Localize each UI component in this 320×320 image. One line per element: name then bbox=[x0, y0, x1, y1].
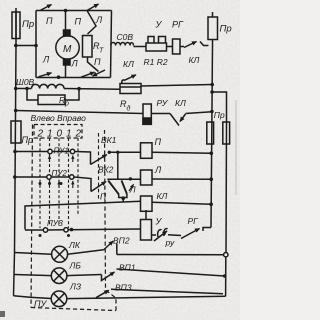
lamp LZ bbox=[14, 296, 52, 299]
wire Rd row bbox=[16, 111, 143, 114]
crease line bbox=[235, 100, 237, 195]
relay L box bbox=[141, 170, 153, 185]
resistor Rp parallel loop bbox=[27, 89, 38, 101]
wire supply vertical bbox=[211, 46, 213, 228]
wire PU3 upper loop bbox=[25, 201, 141, 229]
svg-text:П: П bbox=[46, 16, 53, 26]
svg-text:КЛ: КЛ bbox=[157, 191, 168, 201]
node PU1 left bbox=[13, 150, 17, 154]
contact RU bbox=[152, 234, 157, 236]
switch VP3 bbox=[96, 290, 109, 297]
switch P bottom (Rt to corner) bbox=[88, 57, 99, 72]
fuse Pr2 left bus bbox=[11, 121, 21, 143]
svg-text:М: М bbox=[63, 44, 72, 55]
resistor Rt bbox=[83, 36, 93, 58]
svg-text:ВП2: ВП2 bbox=[113, 236, 130, 246]
svg-text:д: д bbox=[127, 105, 131, 113]
paper texture bbox=[0, 0, 240, 320]
switch blade bottom-right bbox=[81, 72, 95, 77]
wire ShOV row bbox=[16, 88, 32, 90]
node Rd row tap bbox=[210, 110, 214, 114]
node fuse1 to motor-block junction bbox=[14, 44, 18, 48]
svg-text:Л: Л bbox=[42, 55, 50, 65]
svg-text:П: П bbox=[94, 57, 101, 67]
svg-text:R1 R2: R1 R2 bbox=[144, 57, 168, 67]
switch PU2 row bbox=[15, 176, 47, 178]
fuse Pr1 top-left bbox=[12, 12, 20, 39]
svg-text:Л: Л bbox=[154, 165, 162, 175]
svg-text:РГ: РГ bbox=[172, 20, 184, 30]
relay KL2 box bbox=[141, 196, 153, 211]
junction dots positions bbox=[39, 182, 42, 185]
svg-text:0: 0 bbox=[57, 128, 63, 139]
changeover blades P L bbox=[108, 181, 119, 195]
svg-text:ВК2: ВК2 bbox=[98, 165, 114, 175]
switch VP2 bbox=[104, 241, 114, 250]
fuse Pr right of pair bbox=[223, 122, 230, 144]
relay KL box bbox=[120, 84, 141, 94]
svg-text:Пр: Пр bbox=[214, 110, 225, 120]
svg-text:КЛ: КЛ bbox=[123, 59, 134, 69]
enclosure dashed box bbox=[31, 125, 116, 311]
lamp LB bbox=[15, 275, 52, 276]
wire VP2 row to bus bbox=[117, 254, 224, 256]
wire KL row to bus bbox=[152, 202, 211, 204]
svg-text:П: П bbox=[155, 137, 162, 147]
svg-text:Влево Вправо: Влево Вправо bbox=[31, 113, 87, 123]
relay U box bbox=[145, 210, 147, 220]
wire motor-block bottom rail bbox=[36, 77, 111, 79]
resistor Rd bbox=[143, 104, 151, 124]
svg-text:Л: Л bbox=[129, 185, 136, 195]
position stems bbox=[40, 138, 78, 228]
contact arrows PU1 bbox=[49, 156, 51, 163]
svg-text:Л: Л bbox=[95, 15, 103, 25]
positions box dashed bbox=[34, 125, 82, 139]
svg-text:КЛ: КЛ bbox=[189, 55, 200, 65]
switch L bottom-left bbox=[39, 73, 52, 77]
svg-text:ПУ: ПУ bbox=[34, 299, 48, 309]
svg-text:ЛЗ: ЛЗ bbox=[69, 282, 82, 292]
node ShOV bbox=[14, 87, 18, 91]
svg-text:2: 2 bbox=[75, 128, 82, 139]
svg-text:1: 1 bbox=[47, 128, 53, 139]
wire L row to bus bbox=[152, 178, 211, 180]
regulator U box bbox=[146, 43, 167, 51]
svg-text:П: П bbox=[75, 17, 82, 27]
svg-text:РГ: РГ bbox=[188, 216, 200, 226]
wire motor-block left vertical bbox=[35, 11, 37, 78]
svg-text:2: 2 bbox=[37, 128, 44, 139]
wire motor-block right vertical bbox=[111, 11, 112, 78]
node motor plus bbox=[64, 9, 68, 13]
inductor damping bbox=[32, 84, 65, 88]
relay P box bbox=[141, 143, 153, 159]
regulator RG box bbox=[167, 46, 173, 48]
position digits bbox=[37, 128, 82, 139]
node PU2 left bbox=[13, 175, 17, 179]
corner smudge bbox=[0, 311, 5, 317]
node KL-box row tap bbox=[210, 83, 214, 87]
fuse Pr right top bbox=[208, 17, 218, 40]
svg-text:ЛК: ЛК bbox=[68, 240, 81, 250]
link dashed VK1-VK2 bbox=[98, 133, 100, 200]
contact arrows PU2 bbox=[58, 181, 60, 188]
switch KL top row bbox=[184, 42, 197, 48]
switch VP1 bbox=[102, 272, 115, 281]
motor M bbox=[65, 11, 67, 31]
wire SOV to U box bbox=[134, 46, 147, 48]
svg-text:ЛБ: ЛБ bbox=[69, 261, 82, 271]
svg-text:Т: Т bbox=[99, 48, 104, 55]
wire P row to bus bbox=[152, 151, 211, 154]
wire VK1 to L-row vertical bbox=[116, 151, 119, 154]
wire RU to RG bbox=[168, 234, 181, 237]
fuse Pr left of pair bbox=[207, 122, 214, 144]
svg-text:ру: ру bbox=[165, 238, 175, 248]
wire branch to right bus bbox=[210, 90, 214, 94]
svg-text:Пр: Пр bbox=[220, 24, 232, 35]
switch P top bbox=[40, 5, 52, 11]
svg-text:РУ: РУ bbox=[157, 98, 169, 108]
switch L top bbox=[87, 4, 99, 11]
inductor SOV bbox=[111, 43, 134, 46]
switch PU1 row bbox=[15, 151, 48, 153]
svg-text:1: 1 bbox=[66, 128, 72, 139]
svg-text:ВП1: ВП1 bbox=[119, 263, 136, 273]
svg-text:Пр: Пр bbox=[22, 19, 34, 30]
switch RU KL bbox=[151, 113, 170, 115]
svg-text:ПУЗ: ПУЗ bbox=[47, 219, 63, 228]
svg-text:Л: Л bbox=[71, 59, 79, 69]
svg-text:р: р bbox=[64, 101, 69, 108]
svg-text:ВП3: ВП3 bbox=[115, 283, 132, 293]
lamp LK bbox=[15, 253, 52, 255]
svg-text:П: П bbox=[100, 192, 107, 202]
wire top rail bbox=[36, 10, 112, 12]
svg-text:С0В: С0В bbox=[117, 32, 134, 42]
svg-text:Пр: Пр bbox=[22, 135, 34, 145]
wire zigzag to Rt bbox=[87, 11, 96, 35]
wire left bus bbox=[14, 8, 17, 296]
svg-text:ВК1: ВК1 bbox=[101, 135, 117, 145]
svg-text:КЛ: КЛ bbox=[175, 98, 186, 108]
svg-text:ПУ1: ПУ1 bbox=[54, 147, 69, 156]
svg-text:ПУ2: ПУ2 bbox=[52, 169, 68, 178]
